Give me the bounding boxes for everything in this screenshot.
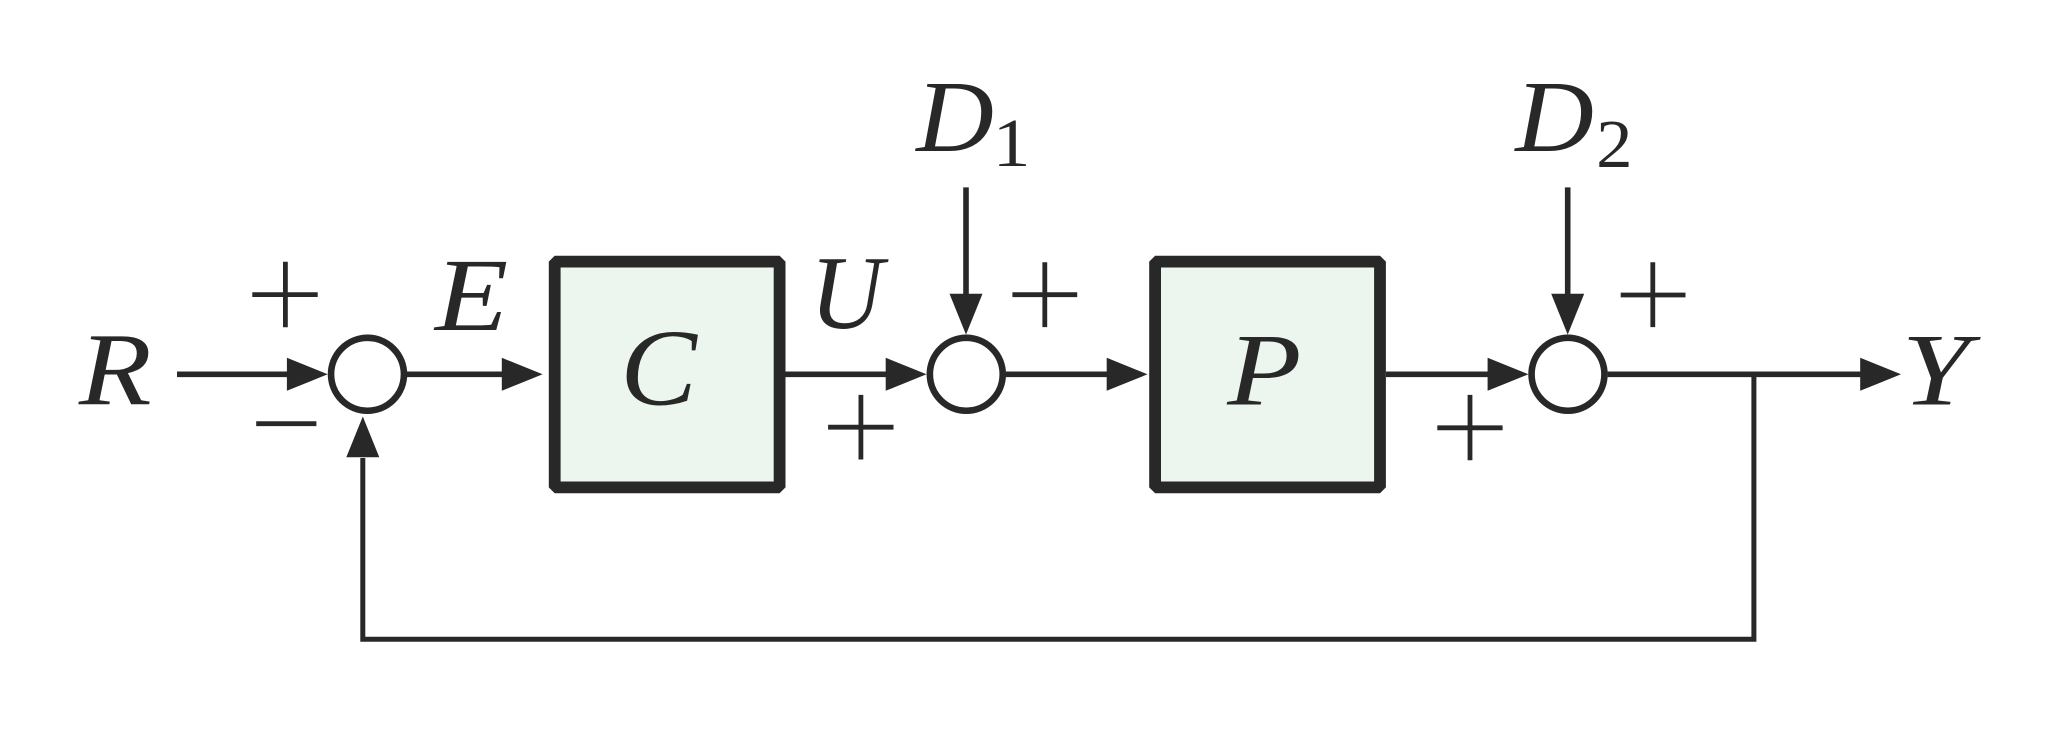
feedback wire (from output branch down, across, and up to S1): [346, 374, 1754, 639]
wire D2 to S3 (arrow): [1551, 187, 1584, 334]
wire S2 to block P (arrow): [1006, 358, 1148, 391]
block C (controller): [555, 262, 780, 488]
plus sign at S1 (R input): [252, 262, 317, 328]
wire C to summing junction S2 (arrow): [785, 358, 927, 391]
summing junction S3: [1532, 338, 1605, 411]
plus sign at S2 (D1 input): [1012, 262, 1077, 327]
label Y: [1902, 312, 1982, 427]
wire P to summing junction S3 (arrow): [1386, 358, 1528, 391]
minus sign at S1 (feedback input): [256, 421, 316, 426]
label P: [1226, 314, 1301, 427]
plus sign at S3 (D2 input): [1621, 262, 1686, 327]
svg-text:2: 2: [1596, 107, 1632, 183]
block P (plant): [1155, 262, 1380, 488]
label R: [78, 312, 152, 428]
svg-text:R: R: [78, 312, 152, 428]
wire D1 to S2 (arrow): [950, 187, 983, 334]
svg-text:Y: Y: [1902, 312, 1982, 427]
wire S1 to block C (arrow): [404, 358, 543, 391]
summing junction S2: [930, 338, 1003, 411]
label D2 (disturbance input): [1513, 60, 1632, 182]
svg-text:U: U: [810, 236, 889, 352]
plus sign at S2 (U input): [828, 395, 893, 460]
svg-text:C: C: [620, 308, 698, 429]
label U: [810, 236, 889, 352]
label E: [433, 238, 508, 353]
label C: [620, 308, 698, 429]
svg-text:P: P: [1226, 314, 1301, 427]
wire R to summing junction S1 (arrow): [177, 358, 328, 391]
plus sign at S3 (P output input): [1437, 395, 1502, 460]
wire S3 to output Y (arrow): [1608, 358, 1901, 391]
svg-text:D: D: [1513, 60, 1594, 173]
label D1 (disturbance input): [914, 60, 1030, 181]
svg-text:1: 1: [993, 104, 1031, 181]
summing junction S1: [331, 338, 404, 411]
svg-text:D: D: [914, 60, 994, 173]
svg-text:E: E: [433, 238, 508, 353]
